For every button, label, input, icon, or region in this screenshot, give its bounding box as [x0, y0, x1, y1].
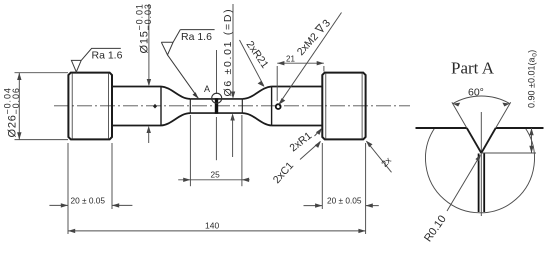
label 2xR21 arrow [258, 81, 265, 87]
label 2xM2 depth3 text [295, 17, 333, 58]
notch slot at center [215, 98, 218, 114]
dim Ø15: lower arrow [147, 126, 151, 133]
dim 21: ext line left (to hole) [276, 66, 278, 101]
dim 25: dim line [178, 179, 249, 181]
dim Ø15: upper arrow [147, 79, 151, 86]
detail circle A [212, 93, 222, 103]
dim 0.90 text [527, 50, 539, 108]
V notch left face [467, 128, 482, 153]
dim 140: right arrow [358, 229, 365, 233]
notch root slot left line [478, 154, 480, 213]
right head outline [322, 73, 365, 140]
dim 25: ext line right [241, 115, 243, 186]
dim 140: dim line [68, 230, 366, 232]
svg-text:20 ± 0.05: 20 ± 0.05 [71, 195, 106, 205]
dim 0.90 arrow up [529, 128, 533, 135]
right taper top curve [242, 87, 271, 99]
dim 21: ext line right [323, 66, 325, 72]
dim 25: notch center ext [215, 117, 217, 160]
centerline main view [54, 105, 410, 107]
svg-text:): ) [527, 50, 537, 53]
M2 hole right shoulder [276, 104, 281, 109]
gauge right tangent line [241, 99, 243, 113]
dim 20 left: left arrow [61, 203, 68, 207]
svg-text:−0.03: −0.03 [143, 3, 153, 30]
label 2xC1: arrow [315, 141, 321, 148]
svg-text:Ra 1.6: Ra 1.6 [92, 49, 123, 61]
dim 21: right arrow [317, 61, 324, 65]
dim 21: dim line [277, 62, 324, 64]
dim 25: right arrow [242, 178, 249, 182]
label 2x chamfer right head: leader [367, 141, 392, 172]
label 2xR1: arrow [316, 128, 322, 135]
detail surface line left [416, 127, 467, 129]
dim 0.90 arrow down [529, 146, 533, 153]
dim Ø26: arrow down [17, 132, 21, 139]
label 2xR21 leader [240, 40, 264, 86]
dim 20 left: ext line left [67, 143, 69, 234]
dim 20 right: ext line left [321, 143, 323, 209]
dim 20 right: left arrow [315, 203, 322, 207]
detail center line [480, 112, 482, 216]
left head chamfer line right face [108, 73, 110, 139]
detail surface line right [496, 127, 544, 129]
V notch right face [481, 128, 495, 153]
notch center upper extension [216, 50, 218, 94]
dim 20 right: ext line right [365, 143, 367, 234]
dim 20 left: dim line with outside tails [49, 204, 132, 206]
svg-text:0.90 ±0.01(a: 0.90 ±0.01(a [527, 58, 537, 108]
svg-text:140: 140 [205, 220, 219, 230]
right shoulder outline [272, 87, 323, 126]
label 2xM2 depth3: leader [279, 13, 342, 105]
V face extension right [496, 102, 511, 128]
dim Ø6: upper leader line [232, 4, 234, 98]
dim Ø26: extension bottom [15, 139, 69, 141]
dim Ø6: upper arrow [231, 92, 235, 99]
dim 25: ext line left [189, 115, 191, 186]
detail circle arc [425, 128, 534, 213]
svg-text:Ø26: Ø26 [7, 114, 19, 137]
svg-text:21: 21 [286, 55, 295, 64]
Ra 1.6 symbol on gauge [161, 30, 214, 99]
dim 140: left arrow [68, 229, 75, 233]
dim Ø26 text [3, 87, 21, 137]
dim 20 left: ext line right [111, 143, 113, 209]
right taper bottom curve [242, 113, 271, 125]
60 degree arc [453, 96, 510, 104]
label 2xC1: leader [300, 142, 320, 160]
right head chamfer line right face [361, 73, 363, 139]
svg-text:Ra 1.6: Ra 1.6 [181, 31, 212, 43]
60 arc right arrow [502, 103, 509, 107]
dim Ø26: arrow up [17, 73, 21, 80]
dim Ø15: upper leader line [148, 4, 150, 85]
svg-text:20 ± 0.05: 20 ± 0.05 [327, 196, 362, 206]
notch root slot right line [483, 154, 485, 213]
right shoulder tangent line [271, 87, 273, 126]
left head chamfer line left face [71, 73, 73, 139]
svg-text:Part A: Part A [451, 59, 495, 78]
svg-text:Ø6 ±0.01 (=D): Ø6 ±0.01 (=D) [222, 8, 234, 97]
label R0.10 arrow [475, 154, 481, 161]
svg-text:−0.06: −0.06 [11, 87, 21, 114]
dim Ø6: lower arrow [230, 113, 234, 120]
left taper top curve [161, 87, 190, 99]
dim Ø15 text [135, 3, 153, 53]
left shoulder tangent line [160, 87, 162, 126]
dim 25: left arrow [183, 178, 190, 182]
60 arc left arrow [453, 103, 460, 107]
left taper bottom curve [161, 113, 190, 125]
V face extension left [452, 102, 467, 128]
left head outline [68, 73, 112, 140]
label R0.10 leader [447, 156, 480, 211]
svg-text:60°: 60° [468, 87, 484, 99]
svg-text:A: A [204, 84, 210, 94]
dim 0.90 line [531, 128, 533, 153]
dim 20 right: right arrow [366, 203, 373, 207]
left shoulder outline [112, 87, 161, 126]
right head chamfer line left face [325, 73, 327, 139]
dim Ø6 text [222, 8, 234, 97]
label 2xM2: arrow at hole [278, 98, 285, 105]
notch root reference line [481, 152, 536, 154]
label 2xR1: leader [315, 129, 322, 137]
gauge section top edge [190, 98, 242, 100]
svg-text:Ø15: Ø15 [139, 30, 151, 53]
dim 21: left arrow [277, 61, 284, 65]
dim Ø6: lower tail [232, 117, 234, 157]
gauge section bottom edge [190, 112, 242, 114]
Ra leader arrow on gauge [193, 92, 199, 98]
dim Ø26: extension top [15, 72, 69, 74]
Ra 1.6 symbol on left head [71, 48, 120, 72]
dim Ø15: lower tail [148, 130, 150, 143]
dim 20 right: dim line tails [304, 205, 379, 207]
gauge left tangent line [189, 99, 191, 113]
dim Ø26: vertical line [18, 73, 20, 140]
M2 hole mark left shoulder [153, 104, 157, 109]
label 2x: arrow [366, 141, 373, 148]
svg-text:25: 25 [211, 169, 221, 179]
dim 20 left: right arrow [112, 203, 119, 207]
